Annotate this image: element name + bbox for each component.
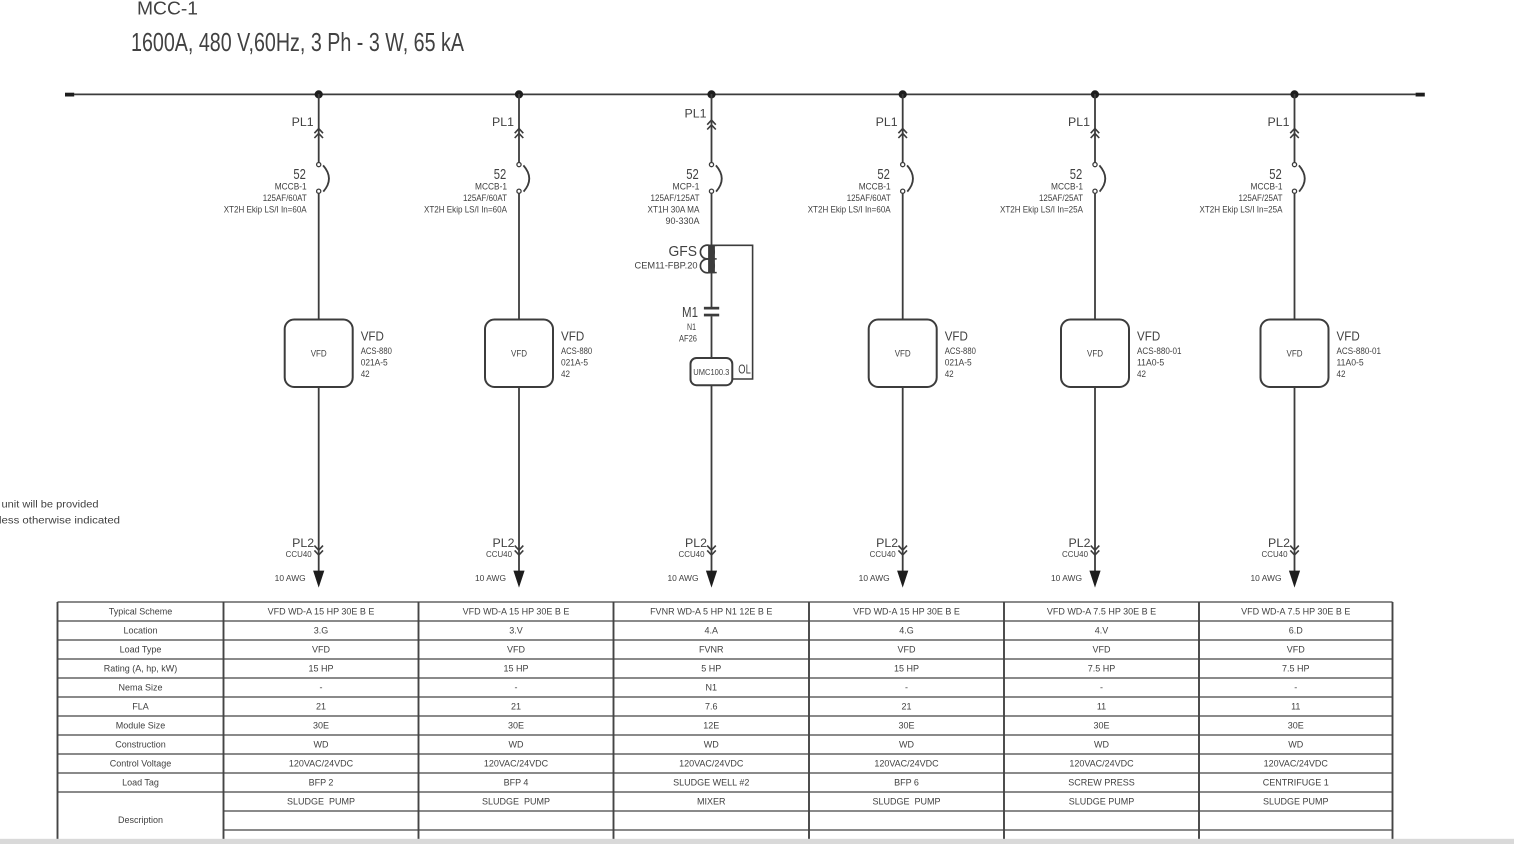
svg-text:SLUDGE PUMP: SLUDGE PUMP xyxy=(482,797,550,807)
svg-text:PL2: PL2 xyxy=(1268,538,1290,550)
svg-text:VFD WD-A 15 HP 30E B E: VFD WD-A 15 HP 30E B E xyxy=(463,607,570,617)
svg-text:CEM11-FBP.20: CEM11-FBP.20 xyxy=(635,260,698,271)
svg-text:125AF/60AT: 125AF/60AT xyxy=(463,193,507,204)
svg-text:VFD: VFD xyxy=(511,348,527,358)
svg-text:PL2: PL2 xyxy=(685,538,707,550)
svg-text:12E: 12E xyxy=(703,721,719,731)
svg-text:15 HP: 15 HP xyxy=(308,664,333,674)
svg-text:10 AWG: 10 AWG xyxy=(275,573,306,583)
svg-text:XT2H Ekip LS/I In=60A: XT2H Ekip LS/I In=60A xyxy=(808,204,892,215)
svg-text:VFD: VFD xyxy=(1337,329,1360,343)
svg-text:Construction: Construction xyxy=(115,740,166,750)
svg-text:-: - xyxy=(515,683,518,693)
svg-text:MCC-1: MCC-1 xyxy=(137,0,198,19)
svg-text:MCCB-1: MCCB-1 xyxy=(475,182,507,193)
svg-text:15 HP: 15 HP xyxy=(894,664,919,674)
svg-text:CCU40: CCU40 xyxy=(870,550,897,559)
svg-text:10 AWG: 10 AWG xyxy=(1051,573,1082,583)
svg-text:VFD: VFD xyxy=(561,329,584,343)
svg-text:52: 52 xyxy=(494,166,507,183)
svg-text:MCCB-1: MCCB-1 xyxy=(1051,182,1083,193)
svg-text:120VAC/24VDC: 120VAC/24VDC xyxy=(289,759,354,769)
svg-text:52: 52 xyxy=(1269,166,1282,183)
svg-text:Location: Location xyxy=(123,626,157,636)
svg-text:-: - xyxy=(1294,683,1297,693)
svg-text:52: 52 xyxy=(1070,166,1083,183)
svg-text:30E: 30E xyxy=(313,721,329,731)
svg-text:SLUDGE WELL #2: SLUDGE WELL #2 xyxy=(673,778,749,788)
svg-text:52: 52 xyxy=(686,166,699,183)
svg-text:7.5 HP: 7.5 HP xyxy=(1282,664,1310,674)
svg-text:GFS: GFS xyxy=(669,243,698,260)
svg-text:4.A: 4.A xyxy=(704,626,718,636)
svg-text:120VAC/24VDC: 120VAC/24VDC xyxy=(1264,759,1329,769)
svg-text:MCCB-1: MCCB-1 xyxy=(1251,182,1283,193)
svg-text:21: 21 xyxy=(511,702,521,712)
svg-text:PL2: PL2 xyxy=(493,538,515,550)
svg-text:-: - xyxy=(905,683,908,693)
svg-text:VFD: VFD xyxy=(1287,645,1306,655)
svg-text:ACS-880: ACS-880 xyxy=(561,346,592,357)
svg-text:VFD: VFD xyxy=(945,329,968,343)
svg-text:CCU40: CCU40 xyxy=(1062,550,1089,559)
svg-text:CCU40: CCU40 xyxy=(679,550,706,559)
svg-text:PL1: PL1 xyxy=(492,117,514,129)
svg-text:less otherwise indicated: less otherwise indicated xyxy=(0,516,120,527)
svg-text:6.D: 6.D xyxy=(1289,626,1304,636)
svg-text:Typical Scheme: Typical Scheme xyxy=(109,607,173,617)
svg-text:FVNR: FVNR xyxy=(699,645,724,655)
svg-text:Module Size: Module Size xyxy=(116,721,166,731)
svg-text:ACS-880: ACS-880 xyxy=(945,346,976,357)
svg-text:42: 42 xyxy=(361,369,370,380)
svg-text:SLUDGE PUMP: SLUDGE PUMP xyxy=(287,797,355,807)
svg-text:3.G: 3.G xyxy=(314,626,329,636)
svg-text:VFD: VFD xyxy=(1287,348,1303,358)
svg-text:SCREW PRESS: SCREW PRESS xyxy=(1068,778,1135,788)
svg-text:Load Type: Load Type xyxy=(120,645,162,655)
svg-text:11A0-5: 11A0-5 xyxy=(1137,357,1164,368)
svg-text:N1: N1 xyxy=(687,322,696,333)
svg-text:PL2: PL2 xyxy=(292,538,314,550)
svg-text:120VAC/24VDC: 120VAC/24VDC xyxy=(484,759,549,769)
svg-text:WD: WD xyxy=(314,740,329,750)
svg-text:-: - xyxy=(1100,683,1103,693)
svg-text:XT2H Ekip LS/I In=60A: XT2H Ekip LS/I In=60A xyxy=(424,204,508,215)
svg-text:11A0-5: 11A0-5 xyxy=(1337,357,1364,368)
svg-text:52: 52 xyxy=(877,166,890,183)
svg-text:FLA: FLA xyxy=(132,702,149,712)
svg-text:WD: WD xyxy=(1094,740,1109,750)
svg-text:10 AWG: 10 AWG xyxy=(668,573,699,583)
svg-text:90-330A: 90-330A xyxy=(666,216,701,227)
svg-text:7.5 HP: 7.5 HP xyxy=(1088,664,1116,674)
svg-text:XT2H Ekip LS/I In=25A: XT2H Ekip LS/I In=25A xyxy=(1000,204,1084,215)
svg-text:5 HP: 5 HP xyxy=(701,664,721,674)
svg-text:Load Tag: Load Tag xyxy=(122,778,159,788)
svg-text:WD: WD xyxy=(899,740,914,750)
svg-text:VFD: VFD xyxy=(311,348,327,358)
svg-text:Description: Description xyxy=(118,815,163,825)
svg-text:CENTRIFUGE 1: CENTRIFUGE 1 xyxy=(1263,778,1329,788)
svg-text:4.V: 4.V xyxy=(1095,626,1109,636)
svg-text:21: 21 xyxy=(316,702,326,712)
svg-text:M1: M1 xyxy=(682,304,698,321)
svg-text:30E: 30E xyxy=(508,721,524,731)
svg-text:PL1: PL1 xyxy=(876,117,898,129)
svg-text:120VAC/24VDC: 120VAC/24VDC xyxy=(874,759,939,769)
svg-text:021A-5: 021A-5 xyxy=(561,357,588,368)
svg-text:AF26: AF26 xyxy=(679,333,697,344)
svg-text:VFD WD-A 7.5 HP 30E B E: VFD WD-A 7.5 HP 30E B E xyxy=(1047,607,1156,617)
svg-text:VFD WD-A 15 HP 30E B E: VFD WD-A 15 HP 30E B E xyxy=(853,607,960,617)
svg-text:XT2H Ekip LS/I In=60A: XT2H Ekip LS/I In=60A xyxy=(224,204,308,215)
svg-text:unit will be provided: unit will be provided xyxy=(2,500,99,511)
svg-text:SLUDGE PUMP: SLUDGE PUMP xyxy=(1263,797,1329,807)
svg-text:VFD: VFD xyxy=(507,645,526,655)
svg-text:VFD: VFD xyxy=(361,329,384,343)
svg-text:125AF/60AT: 125AF/60AT xyxy=(847,193,891,204)
svg-text:120VAC/24VDC: 120VAC/24VDC xyxy=(679,759,744,769)
svg-text:52: 52 xyxy=(293,166,306,183)
svg-text:125AF/60AT: 125AF/60AT xyxy=(263,193,307,204)
svg-text:ACS-880-01: ACS-880-01 xyxy=(1337,346,1382,357)
svg-text:021A-5: 021A-5 xyxy=(945,357,972,368)
svg-text:VFD WD-A 7.5 HP 30E B E: VFD WD-A 7.5 HP 30E B E xyxy=(1241,607,1350,617)
svg-text:30E: 30E xyxy=(898,721,914,731)
svg-text:WD: WD xyxy=(509,740,524,750)
svg-text:125AF/25AT: 125AF/25AT xyxy=(1039,193,1083,204)
svg-text:VFD: VFD xyxy=(1137,329,1160,343)
svg-text:125AF/125AT: 125AF/125AT xyxy=(651,193,700,204)
svg-text:PL1: PL1 xyxy=(1068,117,1090,129)
svg-text:PL1: PL1 xyxy=(1268,117,1290,129)
svg-text:BFP 2: BFP 2 xyxy=(309,778,334,788)
svg-text:10 AWG: 10 AWG xyxy=(1251,573,1282,583)
svg-text:BFP 6: BFP 6 xyxy=(894,778,919,788)
svg-text:VFD: VFD xyxy=(1087,348,1103,358)
svg-text:FVNR WD-A 5 HP N1 12E B E: FVNR WD-A 5 HP N1 12E B E xyxy=(650,607,772,617)
svg-text:ACS-880-01: ACS-880-01 xyxy=(1137,346,1182,357)
svg-text:CCU40: CCU40 xyxy=(286,550,313,559)
svg-text:10 AWG: 10 AWG xyxy=(859,573,890,583)
svg-text:SLUDGE PUMP: SLUDGE PUMP xyxy=(872,797,940,807)
svg-text:11: 11 xyxy=(1291,702,1300,712)
svg-text:10 AWG: 10 AWG xyxy=(475,573,506,583)
svg-text:MIXER: MIXER xyxy=(697,797,726,807)
svg-text:42: 42 xyxy=(945,369,954,380)
svg-text:ACS-880: ACS-880 xyxy=(361,346,392,357)
svg-text:WD: WD xyxy=(704,740,719,750)
svg-text:WD: WD xyxy=(1288,740,1303,750)
svg-text:VFD: VFD xyxy=(1093,645,1112,655)
svg-text:42: 42 xyxy=(1337,369,1346,380)
svg-text:120VAC/24VDC: 120VAC/24VDC xyxy=(1069,759,1134,769)
svg-text:VFD WD-A 15 HP 30E B E: VFD WD-A 15 HP 30E B E xyxy=(268,607,375,617)
svg-text:42: 42 xyxy=(561,369,570,380)
svg-text:125AF/25AT: 125AF/25AT xyxy=(1239,193,1283,204)
svg-text:15 HP: 15 HP xyxy=(503,664,528,674)
svg-text:30E: 30E xyxy=(1093,721,1109,731)
svg-text:MCCB-1: MCCB-1 xyxy=(859,182,891,193)
svg-text:N1: N1 xyxy=(705,683,717,693)
svg-text:7.6: 7.6 xyxy=(705,702,718,712)
svg-text:21: 21 xyxy=(901,702,911,712)
svg-text:Rating (A, hp, kW): Rating (A, hp, kW) xyxy=(104,664,178,674)
svg-text:VFD: VFD xyxy=(312,645,331,655)
svg-text:PL2: PL2 xyxy=(876,538,898,550)
svg-text:UMC100.3: UMC100.3 xyxy=(693,368,730,377)
svg-text:021A-5: 021A-5 xyxy=(361,357,388,368)
svg-text:-: - xyxy=(320,683,323,693)
svg-text:PL1: PL1 xyxy=(685,109,707,121)
svg-text:CCU40: CCU40 xyxy=(486,550,513,559)
svg-text:MCP-1: MCP-1 xyxy=(673,182,700,193)
svg-text:XT2H Ekip LS/I In=25A: XT2H Ekip LS/I In=25A xyxy=(1200,204,1284,215)
svg-text:Nema Size: Nema Size xyxy=(118,683,162,693)
svg-text:OL: OL xyxy=(738,361,751,376)
svg-text:30E: 30E xyxy=(1288,721,1304,731)
svg-text:BFP 4: BFP 4 xyxy=(504,778,529,788)
svg-text:XT1H 30A MA: XT1H 30A MA xyxy=(648,204,701,215)
svg-text:SLUDGE PUMP: SLUDGE PUMP xyxy=(1069,797,1135,807)
svg-text:VFD: VFD xyxy=(898,645,917,655)
svg-text:Control Voltage: Control Voltage xyxy=(110,759,172,769)
svg-text:42: 42 xyxy=(1137,369,1146,380)
svg-text:PL2: PL2 xyxy=(1069,538,1091,550)
svg-text:11: 11 xyxy=(1097,702,1106,712)
svg-text:1600A, 480 V,60Hz, 3 Ph - 3 W,: 1600A, 480 V,60Hz, 3 Ph - 3 W, 65 kA xyxy=(131,27,464,57)
svg-text:4.G: 4.G xyxy=(899,626,914,636)
svg-text:CCU40: CCU40 xyxy=(1262,550,1289,559)
svg-text:MCCB-1: MCCB-1 xyxy=(275,182,307,193)
svg-text:PL1: PL1 xyxy=(292,117,314,129)
svg-text:VFD: VFD xyxy=(895,348,911,358)
svg-text:3.V: 3.V xyxy=(509,626,523,636)
